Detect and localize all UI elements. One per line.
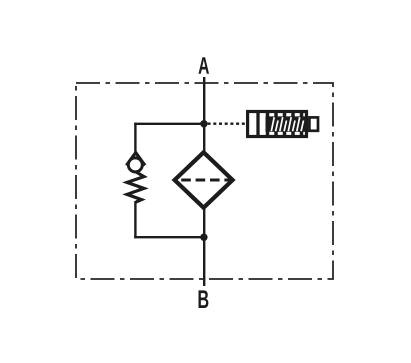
enclosure (dashed subplate boundary) bbox=[76, 83, 333, 279]
wire: port A to upper junction to diamond top bbox=[203, 77, 205, 151]
adjustable spring cartridge: body bbox=[248, 112, 307, 137]
adjustable spring cartridge: spring coil bars bbox=[268, 111, 302, 137]
adjustable spring cartridge: coil highlights bbox=[271, 117, 303, 131]
valve internal dashed passage bbox=[181, 179, 229, 182]
wire: left branch lower vertical bbox=[134, 201, 136, 238]
check valve V1 spring bbox=[127, 172, 144, 202]
adjustable spring cartridge: piston bar bbox=[256, 111, 259, 137]
wire: upper horizontal branch to check valve bbox=[134, 123, 205, 125]
adjustable spring cartridge: adjustment screw bbox=[309, 117, 318, 130]
valve body diamond bbox=[175, 152, 233, 207]
wire: lower horizontal branch from check valve bbox=[134, 236, 205, 238]
adjustable spring cartridge: spring coil band bbox=[266, 116, 307, 131]
check valve V1 ball bbox=[128, 158, 142, 172]
port label B bbox=[199, 290, 209, 308]
port label A bbox=[199, 57, 210, 73]
wire: diamond bottom through lower junction to port B bbox=[203, 209, 205, 286]
node: upper junction bbox=[200, 120, 207, 127]
wire: left branch upper vertical bbox=[134, 123, 136, 154]
check valve V1 seat bbox=[126, 153, 145, 166]
pilot line (dotted) from upper junction to spring cartridge bbox=[208, 122, 247, 124]
node: lower junction bbox=[200, 234, 207, 241]
